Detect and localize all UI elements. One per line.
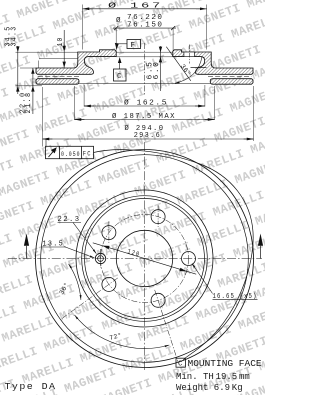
- svg-text:FC: FC: [83, 151, 92, 158]
- label 22.3: [58, 216, 82, 224]
- swept band inner circles: [82, 196, 208, 322]
- bolt hole 0deg: [182, 252, 196, 266]
- svg-text:Ø 167: Ø 167: [108, 2, 163, 11]
- bolt hole slot in right flange: [184, 45, 195, 64]
- hat outer circle: [76, 190, 213, 327]
- radial centerline 216deg: [62, 278, 118, 319]
- svg-text:6.0: 6.0: [153, 61, 161, 80]
- label D187.5 MAX: [112, 112, 176, 121]
- friction ring top plate + hat neck + flange, left half: [36, 50, 116, 84]
- label 16.65 (x5): [213, 293, 258, 301]
- svg-text:34.3: 34.3: [11, 26, 19, 47]
- BOTTOM-VIEW: [8, 139, 263, 372]
- label D167: [108, 2, 163, 11]
- label 13.5: [43, 241, 67, 249]
- horizontal centerline: [8, 258, 262, 260]
- label C MOUNTING FACE: [176, 358, 262, 369]
- svg-text:Ø: Ø: [116, 16, 122, 25]
- label 72deg: [108, 331, 123, 342]
- flange top/bottom extension lines across bore + far left: [16, 52, 173, 86]
- bolt hole 216deg: [102, 277, 116, 291]
- label D294.0/293.6: [125, 124, 165, 140]
- center bore circle: [116, 230, 172, 286]
- 36deg angle arc: [69, 264, 81, 300]
- dimension D76.220/76.150: [113, 26, 176, 50]
- dimension D294.0/293.6: [43, 86, 254, 147]
- svg-text:F: F: [131, 42, 137, 50]
- 72deg angle arc: [75, 315, 170, 348]
- svg-text:Weight 6.9 Kg: Weight 6.9 Kg: [176, 383, 243, 393]
- label C: [117, 73, 123, 81]
- label D162.5: [124, 98, 168, 107]
- long S leader from frame to C box: [94, 150, 254, 361]
- dimension 10 left: [39, 30, 78, 68]
- leader 22.3: [73, 223, 96, 254]
- label 34.5/34.3: [4, 26, 18, 47]
- vent vane dashed line, right: [208, 76, 252, 78]
- svg-text:16.65 (x5): 16.65 (x5): [213, 293, 258, 301]
- dimension D162.5: [84, 85, 205, 107]
- svg-text:293.6: 293.6: [134, 132, 162, 140]
- label Min. TH 19.5 mm: [176, 372, 250, 382]
- 36 deg rotated-section diagonal line: [166, 47, 191, 81]
- svg-text:Type DA: Type DA: [5, 381, 57, 392]
- label 6.5/6.0: [146, 61, 161, 80]
- label 10: [57, 37, 65, 47]
- bolt circle centerline: [101, 215, 189, 303]
- label 0.050 FC: [61, 151, 92, 159]
- label 36deg: [57, 281, 70, 296]
- section arrow right: [258, 234, 263, 259]
- dimension D167: [83, 5, 207, 50]
- disc outer edge circle: [36, 150, 254, 368]
- leader 13.5: [64, 247, 95, 259]
- svg-text:C: C: [178, 361, 184, 369]
- dimension 6.5/6.0 flange thickness: [159, 46, 162, 91]
- svg-text:0.050: 0.050: [61, 151, 81, 159]
- bolt hole 288deg: [151, 293, 165, 307]
- dimension D187.5 MAX: [75, 86, 215, 120]
- section centerline: [144, 43, 146, 96]
- label 22.0/21.8: [19, 92, 33, 114]
- datum F box and leader: [115, 40, 141, 50]
- label 36deg section: [179, 62, 193, 77]
- label 120: [126, 248, 141, 259]
- dimension 34.5/34.3 overall height: [16, 46, 19, 94]
- label D76.220/76.150: [116, 14, 164, 29]
- svg-text:C: C: [117, 73, 123, 81]
- dimension 120 bolt circle: [93, 243, 196, 274]
- vertical centerline: [144, 142, 146, 372]
- svg-text:21.8: 21.8: [25, 92, 33, 114]
- svg-text:10: 10: [57, 37, 65, 47]
- label Type DA: [5, 381, 57, 392]
- locating screw hole 180deg: [95, 249, 105, 268]
- svg-text:Ø 162.5: Ø 162.5: [124, 98, 168, 107]
- dimension 22.0/21.8 ring thickness: [31, 68, 34, 114]
- datum C box and leader: [114, 57, 127, 81]
- section arrow left: [24, 234, 29, 259]
- runout tolerance frame: [46, 139, 94, 159]
- svg-text:MOUNTING FACE: MOUNTING FACE: [188, 358, 262, 369]
- vent vane dashed line, left: [38, 76, 80, 78]
- bolt hole 144deg: [102, 221, 116, 244]
- label Weight 6.9 Kg: [176, 383, 243, 393]
- svg-text:Ø 187.5 MAX: Ø 187.5 MAX: [112, 112, 176, 121]
- 36 deg angle arc with arrow: [79, 57, 210, 84]
- friction ring top plate + hat neck + flange, right half: [173, 50, 253, 84]
- SECTION-VIEW: [16, 5, 254, 147]
- svg-text:76.150: 76.150: [127, 21, 164, 29]
- svg-text:Min. TH 19.5 mm: Min. TH 19.5 mm: [176, 372, 250, 382]
- bolt hole 72deg: [151, 206, 165, 229]
- radial centerline 288deg: [155, 290, 178, 362]
- hat underside visible edge right: [191, 67, 207, 69]
- leader 16.65: [192, 264, 258, 300]
- label F: [131, 42, 137, 50]
- disc edge chamfer circle: [41, 155, 249, 363]
